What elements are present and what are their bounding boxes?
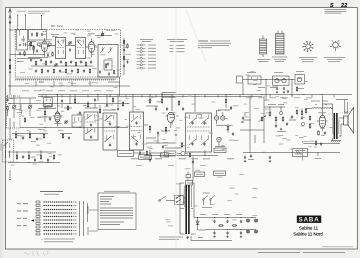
resistor R35 [305,108,307,113]
AM bandfilter II box [84,112,98,140]
label row [268,103,284,106]
capacitor C10 [30,58,32,61]
model name Sabine 11 [299,225,319,230]
label under [277,130,286,133]
capacitor C6 [69,48,71,51]
power labels row [200,213,242,216]
resistor R23 [40,154,41,159]
capacitor C36 [275,124,277,127]
wire [28,46,34,53]
wire [36,81,90,86]
label above V1b [88,32,95,35]
oscillator coil box [3,140,14,162]
band label TA [17,224,27,227]
capacitor C1 [25,43,27,46]
label ECH81 [55,122,62,125]
IF link chain [123,38,128,75]
resistor R17 [74,98,75,103]
svg-text:x: x [42,239,43,241]
wire audio return [303,141,341,144]
wire with arrow [149,150,151,163]
boxed label Klangschalter [118,151,134,157]
resistor R4 [52,52,53,57]
electrolytic C50a [212,220,216,223]
resistor R2 [30,41,31,46]
paper crease [176,9,206,248]
wire [193,183,195,218]
wire [264,106,285,124]
capacitor C34b [162,145,164,148]
AF twin-triode box [273,76,290,85]
tube V1a ECC85 [39,38,50,52]
note: Ersatzteile text block [325,9,347,13]
antenna [9,9,12,96]
wire [243,113,251,121]
speaker LS [344,108,354,134]
wire [38,107,116,117]
resistor R12 [85,61,86,66]
tube V2 ECH81 [53,95,62,127]
capacitor C2 [19,52,21,55]
speaker terminals [336,100,348,114]
bracket note upper [88,206,98,214]
diode V4b ratio detector [217,137,221,146]
ground [186,236,188,238]
wire [8,151,56,152]
svg-text:Sabine 11: Sabine 11 [299,225,319,230]
B+ supply bus [38,94,352,95]
capacitor C25 [22,155,24,158]
sheet number S 22 [330,3,348,9]
capacitor C44 [139,151,141,154]
wire [146,94,162,107]
label FM-Tuner [51,25,63,28]
capacitor C21 [79,111,81,114]
wire [38,107,56,123]
tube pinout diagram EL95 [324,40,345,62]
FM tuner enclosure [15,30,120,78]
resistor R40 [189,152,190,157]
resistor R30b [181,142,182,147]
electrolytic C51a [226,220,228,223]
capacitor C24 [117,107,119,110]
volume potentiometer [259,115,266,122]
band label KW [17,217,27,220]
legend: voltage symbols table [137,39,157,69]
value labels [247,71,304,89]
svg-text:22: 22 [340,3,348,9]
capacitor C28 [155,107,157,110]
coil L1 [19,30,21,36]
boxed label fuse value [195,172,205,177]
wire [10,54,45,59]
FM bandfilter I box [56,38,66,59]
scan smudge [0,143,4,151]
wire rail2 [205,229,256,230]
wire [240,120,296,143]
svg-text:Sabine 11 Nord: Sabine 11 Nord [293,232,323,237]
trimmer C12b [54,63,57,66]
trimmer C4 [68,41,71,44]
resistor R39 [146,150,147,155]
wire [28,58,93,67]
heading Drucktastenaggregat [40,191,63,195]
tuning gang C17b [28,105,32,109]
electrolytic C50b [212,231,216,234]
wire antenna to tuner [9,29,16,30]
x mark input [242,121,244,123]
IF transformer Fi2 [186,113,212,152]
wire [8,152,60,163]
voltage selector [175,196,184,205]
wire [144,123,182,149]
resistor R33 [282,116,284,121]
capacitor C35 [242,116,244,119]
resistor R27 [225,98,226,103]
heater wire 6.3V [194,240,232,242]
vertical bus B [263,96,265,144]
wire [144,155,218,156]
capacitor C45 [192,160,194,163]
dipole feed lines [17,14,42,29]
resistor R22 [28,154,29,159]
resistor R15 [44,110,45,115]
boxed label Ratio [214,148,226,153]
diode V4c EABC80 [221,112,225,120]
selector contact b [210,196,215,206]
capacitor C32 [232,132,234,135]
bracket note lower [88,227,98,235]
capacitor C13 [60,60,62,63]
ground [244,160,246,162]
resistor R1 [24,51,25,56]
switch note line 1 [42,239,76,241]
IF transformer Fi1 [130,112,144,150]
tuning gang C17a [12,105,16,109]
electrolytic C52b [240,231,242,234]
label EL95 [318,111,326,114]
resistor chain [309,115,311,128]
left column parts [6,95,8,116]
filter resistor R41 [218,225,223,226]
AF output box [295,75,305,85]
osc coil A [100,47,105,53]
capacitor C19 [61,99,63,102]
label 25uF [301,149,304,161]
capacitor C43 [269,156,271,159]
capacitor C22 [94,98,96,101]
wire supply bus [8,85,130,86]
trimmer C20 [64,120,67,123]
headphone jack box [293,149,308,157]
print code [322,245,353,248]
dial lamp La2 [247,230,250,233]
capacitor C34 [175,133,177,136]
transformer ground hatch [331,141,341,143]
selector arrow [31,219,34,222]
capacitor C15b [90,60,92,63]
capacitor C3 [33,46,35,49]
capacitor C29 [166,107,168,110]
audio labels row [246,96,312,99]
boxed label Si [186,181,193,186]
resistor R20b [122,101,123,106]
coil symbol Fe2 [272,31,287,63]
capacitor C33 [157,131,159,134]
boxed label ZF [162,93,176,98]
switch contact matrix [36,201,77,235]
AM mid parts [60,133,72,139]
capacitor C12 [50,60,52,63]
oscillator box [98,45,118,78]
capacitor C38 [291,115,293,118]
capacitor C37 [286,122,288,125]
capacitor C16 [287,90,289,93]
wire [127,95,140,156]
electrolytic C52a [240,220,242,223]
trimmer C9b [101,31,104,36]
resistor R9 [45,60,46,65]
ground [280,128,282,130]
pencil note [24,252,48,257]
bracket lines [80,201,88,236]
capacitor C11 [40,58,42,61]
coil L3 [20,104,22,114]
band label LW [17,202,28,205]
wire [10,118,14,140]
selector contact a [203,196,208,206]
ground [269,160,271,162]
tube pinout diagram EABC80 [299,41,317,62]
wire [108,77,120,96]
resistor R35b [301,109,303,116]
ferrite rod box [7,96,21,128]
AM bandfilter III box [103,113,117,150]
resistor R14 [24,117,25,122]
resistor R21 [16,154,17,159]
wire mesh mid [45,46,92,58]
electrolytic C51b [226,231,228,234]
wire speaker feed [339,118,345,136]
bandfilter box AM [44,98,53,107]
fuse [186,172,191,182]
wire [195,95,205,156]
wire [319,128,323,131]
dial lamp La3 [255,219,258,222]
cathode parts [315,140,322,145]
filter resistor R42 [232,225,237,226]
grid resistor R36 [318,130,320,135]
value labels (scattered) [8,30,334,235]
wire [243,79,293,101]
diode circle AF2 [301,122,304,125]
capacitor C26 [34,158,36,161]
value labels [202,193,212,208]
resistor R25 [161,98,162,103]
svg-text:S: S [330,3,334,9]
label above choke [311,101,328,105]
resistor R32 [275,116,277,121]
resistor R34 [296,109,298,114]
legend box Spannungen [98,191,136,230]
note: antenna connection [17,11,50,14]
coil L2 [23,36,25,46]
resistor R19 [99,108,100,113]
wire [134,152,164,154]
resistor R23b [53,154,54,159]
dial lamp La1 [247,219,250,222]
capacitor C39 [301,116,303,119]
IF designators rows [131,158,234,165]
boxed label Netz [165,151,176,156]
band label MW [17,210,28,213]
diode circle [181,151,185,155]
rectifier Gr1 [196,218,205,231]
model name Sabine 11 Nord [293,232,323,237]
capacitor C5 [47,53,49,56]
capacitor C27 [47,158,49,161]
resistor R31 [269,111,271,116]
wire return long [243,151,340,160]
resistor R26 [178,100,179,105]
antenna series cap [9,58,11,73]
resistor R11 [75,61,76,66]
switch note line 2 [44,240,73,243]
ground [226,236,228,238]
capacitor C15 [80,60,82,63]
wire [171,198,186,202]
AVC line [20,127,128,128]
osc sub box [104,60,112,70]
capacitor C18 [49,117,51,120]
resistor R16 [67,105,68,110]
output transformer [322,104,339,141]
resistor R30 [165,126,166,131]
wire [95,35,112,36]
V1a input parts [28,42,38,55]
mains switch [159,196,171,201]
input shield box [29,30,47,40]
svg-text:FM - Tuner: FM - Tuner [51,25,63,28]
tube V3 EF89 [166,95,179,125]
wire B+ rail [194,217,256,218]
grid box left [38,43,41,46]
bandpass box [248,76,261,84]
boxed label mains voltages [214,171,226,176]
boxed label Bandbreite [45,104,52,107]
choke coil [305,107,333,110]
svg-text:SABA: SABA [299,217,320,224]
label ECC85 [51,34,59,37]
antenna coupling mark [9,170,10,180]
grid box right [49,43,52,46]
UKW antenna input box [17,30,28,50]
phono input box [237,76,243,83]
osc coil B [108,47,113,53]
resistor R18 [87,102,88,107]
capacitor C14 [70,60,72,63]
resistor R24 [149,98,150,103]
capacitor C30 [182,107,184,110]
resistor R8 [35,60,36,65]
tube V5 EL95 [317,96,328,129]
parts under AF boxes [276,86,298,93]
vertical bus A [249,96,251,152]
AGC bus [8,103,128,104]
diode circle AF [279,111,282,114]
ground [240,236,242,238]
bus stubs [46,95,334,98]
resistor R20 [112,97,113,102]
label EABC80 b [215,145,225,148]
osc parts [99,70,115,76]
resistor R29 [149,125,150,130]
cathode capacitor C41 [324,131,326,134]
capacitor C23 [106,103,108,106]
component designators row [22,89,113,92]
SABA logo [297,216,321,224]
coil symbol Fe1 [257,36,270,63]
FM bandfilter II box [76,38,86,59]
boxed label Bandfilter 2 [161,153,169,157]
wire [176,153,194,181]
row of decoupling parts [35,68,91,73]
heater rail [38,95,262,97]
oscillator coil box AM [72,115,82,127]
note: UKW text paragraph [198,41,231,49]
note Gegentakt [159,237,203,240]
AM lower parts [12,131,48,141]
power transformer Tr [180,183,194,241]
resistor R28 [227,125,228,130]
capacitor C31 [230,106,232,109]
label EABC80 [216,124,227,127]
wire [243,79,295,81]
capacitor C42 [244,156,246,159]
boxed label Bandfilter [139,155,152,160]
wire [42,95,118,110]
footer imprint [258,251,345,254]
tube V1b ECC85 [88,39,97,53]
x mark [19,44,21,46]
wire [8,95,36,118]
value label 240 [17,60,24,63]
resistor R10 [65,61,66,66]
chassis ground bus [15,79,116,81]
ground [213,236,215,238]
legend: measurement notes [167,39,187,52]
dial lamp La4 [255,230,258,233]
diode V4a EABC80 [214,110,218,124]
wire [218,94,231,133]
